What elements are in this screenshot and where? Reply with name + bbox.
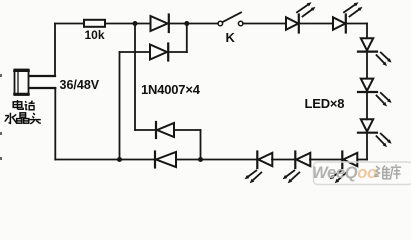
scan speckles	[0, 74, 2, 160]
LED D5 arrows	[297, 2, 316, 16]
LED D12	[257, 152, 272, 169]
watermark Chinese wei ku	[374, 164, 401, 179]
svg-text:K: K	[226, 30, 236, 45]
wire top rail left	[55, 23, 84, 25]
LED D9 arrows	[377, 134, 392, 148]
LED D11	[295, 152, 310, 169]
label shuijingtou (Chinese: crystal head)	[5, 113, 41, 124]
LED D6	[333, 15, 346, 33]
wire top rail to right corner	[346, 23, 367, 25]
node plus junction dot	[184, 21, 189, 26]
LED D9	[358, 119, 377, 132]
wire switch to LED1	[243, 23, 286, 25]
LED D7 arrows	[377, 53, 392, 67]
diode D4	[155, 152, 201, 168]
svg-text:36/48V: 36/48V	[60, 78, 100, 92]
node AC1 junction dot	[133, 21, 138, 26]
LED D10	[342, 152, 357, 169]
diode D1	[151, 15, 169, 33]
wire top rail resistor to D1	[105, 23, 151, 25]
wire left vertical upper	[54, 24, 56, 77]
wire vertical AC2	[119, 52, 121, 160]
LED D8	[358, 79, 377, 92]
switch K	[218, 13, 243, 26]
wire connector stub lower	[29, 87, 55, 89]
LED D7	[358, 38, 377, 51]
connector J1 telephone crystal head	[15, 70, 29, 96]
wire right vertical segment 1	[366, 24, 368, 39]
LED D12 arrows	[245, 171, 262, 184]
wire connector stub upper	[29, 75, 55, 77]
LED D10 arrows	[330, 171, 347, 184]
wire right vertical segment 2	[366, 52, 368, 79]
wire LED D10 to D11	[310, 159, 342, 161]
svg-text:LED×8: LED×8	[305, 96, 345, 111]
node minus junction dot	[198, 157, 203, 162]
wire LED1 to LED2	[299, 23, 333, 25]
label dianhua (Chinese: telephone)	[13, 100, 34, 110]
LED D8 arrows	[377, 93, 392, 107]
wire right vertical segment 3	[366, 92, 368, 119]
resistor R1	[84, 20, 105, 27]
LED D6 arrows	[344, 2, 363, 16]
node AC2 junction dot	[117, 157, 122, 162]
svg-text:1N4007×4: 1N4007×4	[141, 82, 201, 97]
diode D3	[135, 122, 201, 160]
wire vertical AC1	[134, 24, 136, 131]
wire LED D12 to minus node	[201, 159, 258, 161]
svg-text:10k: 10k	[85, 28, 105, 42]
wire left vertical lower	[54, 88, 56, 160]
LED D5	[286, 15, 299, 33]
wire top rail D1 to switch	[169, 23, 218, 25]
wire bottom rail right corner	[357, 159, 367, 161]
wire bottom rail left	[55, 159, 155, 161]
wire LED D11 to D12	[272, 159, 295, 161]
svg-text:WeeQoo: WeeQoo	[312, 164, 377, 182]
LED D11 arrows	[283, 171, 300, 184]
wire right vertical segment 4	[366, 133, 368, 160]
watermark WeeQoo weiku	[312, 162, 411, 185]
diode D2	[120, 24, 187, 61]
